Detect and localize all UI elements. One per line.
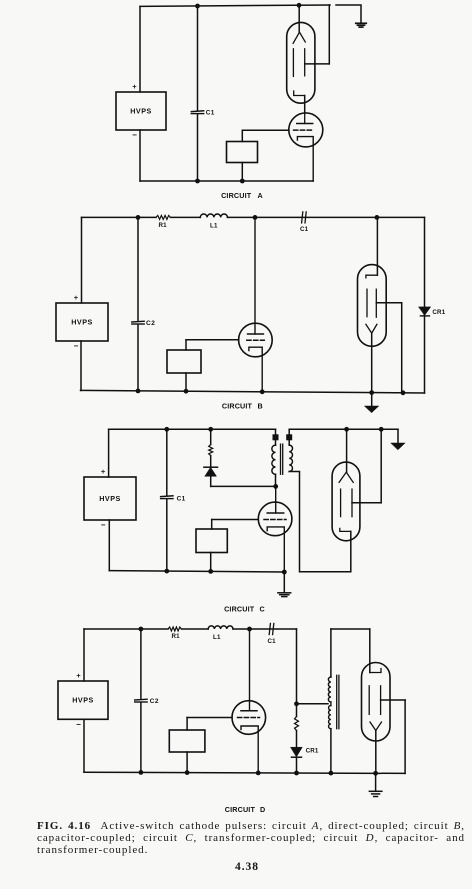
svg-text:HVPS: HVPS	[71, 317, 93, 326]
svg-text:CIRCUIT: CIRCUIT	[222, 402, 253, 411]
svg-text:R1: R1	[159, 222, 168, 229]
svg-text:CIRCUIT: CIRCUIT	[221, 191, 252, 200]
svg-text:C1: C1	[177, 496, 186, 503]
svg-text:+: +	[132, 82, 137, 91]
svg-text:−: −	[101, 521, 106, 530]
svg-text:−: −	[132, 131, 137, 140]
svg-text:−: −	[74, 342, 79, 351]
svg-text:R1: R1	[172, 633, 181, 640]
svg-text:+: +	[74, 293, 79, 302]
svg-text:A: A	[258, 191, 263, 200]
svg-text:C1: C1	[268, 638, 277, 645]
svg-text:C: C	[260, 604, 265, 613]
svg-text:L1: L1	[210, 223, 218, 230]
svg-text:C1: C1	[300, 226, 309, 233]
svg-text:HVPS: HVPS	[130, 106, 152, 115]
svg-text:−: −	[76, 720, 81, 729]
svg-text:C1: C1	[206, 110, 215, 117]
svg-text:D: D	[260, 805, 265, 814]
svg-text:HVPS: HVPS	[72, 696, 94, 705]
svg-text:C2: C2	[146, 320, 155, 327]
svg-text:B: B	[258, 402, 263, 411]
svg-text:CR1: CR1	[432, 309, 445, 316]
svg-text:CIRCUIT: CIRCUIT	[224, 604, 255, 613]
svg-text:C2: C2	[150, 698, 159, 705]
svg-text:+: +	[76, 671, 81, 680]
svg-text:+: +	[101, 467, 106, 476]
svg-text:L1: L1	[213, 634, 221, 641]
svg-text:HVPS: HVPS	[99, 494, 121, 503]
svg-text:CR1: CR1	[306, 748, 319, 755]
svg-text:CIRCUIT: CIRCUIT	[225, 805, 256, 814]
